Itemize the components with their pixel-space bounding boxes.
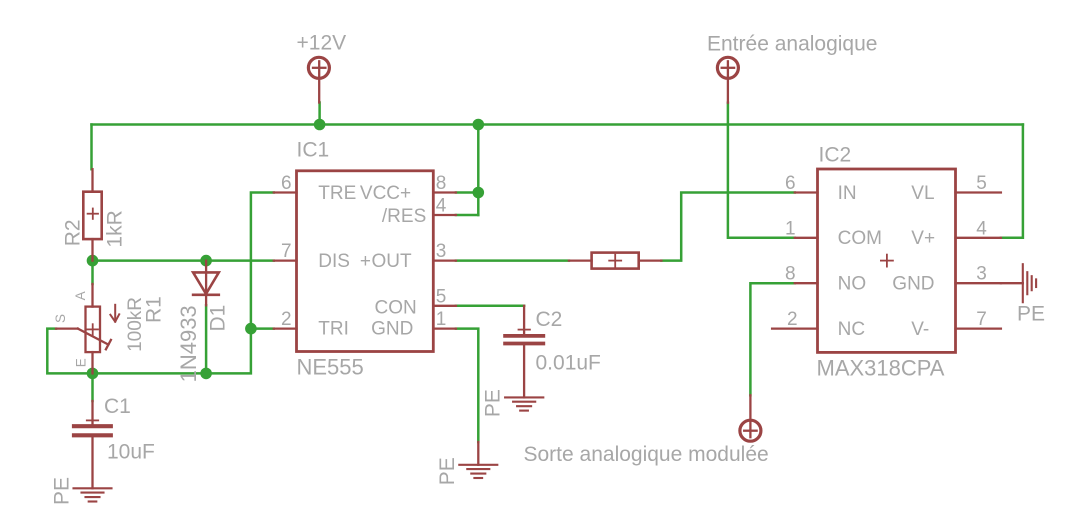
ground PE (IC1 pin1) [459,442,497,478]
node Entree analogique symbol [717,57,738,102]
svg-text:5: 5 [976,173,987,194]
svg-text:4: 4 [436,196,447,217]
diode D1 [193,261,219,306]
IC2 pin 8 stub [795,282,818,284]
IC2 MAX318CPA body [818,169,956,352]
svg-text:2: 2 [281,309,292,330]
svg-text:IC1: IC1 [297,139,330,162]
junction diode bottom [200,368,212,380]
wire pin2 link [251,327,274,330]
svg-text:3: 3 [436,241,447,262]
svg-text:CON: CON [375,298,417,319]
wire top rail right drop to IC2 pin4 [1001,125,1023,238]
wire +12V symbol drop [318,103,321,125]
supply +12V symbol [308,57,329,102]
IC2 pin 1 stub [795,237,818,239]
svg-text:1: 1 [785,218,796,239]
ground PE (C2) [505,397,543,410]
wire C1 tap from bottom rail [91,373,94,401]
svg-text:6: 6 [281,173,292,194]
IC1 pin 7 stub [274,259,297,261]
wire diode cathode to bottom rail [205,305,208,373]
svg-text:8: 8 [785,264,796,285]
wire pin1 to PE drop [456,329,478,442]
svg-text:TRE: TRE [318,183,356,204]
svg-text:OUT: OUT [372,251,413,272]
IC1 pin 4 stub [433,214,456,216]
svg-text:PE: PE [481,389,504,417]
IC1 pin 1 stub [433,327,456,329]
svg-text:TRI: TRI [318,319,349,340]
svg-text:+: + [360,251,371,272]
IC1 pin 6 stub [274,191,297,193]
svg-text:PE: PE [51,477,74,505]
svg-text:C1: C1 [104,395,131,418]
wire pin5 to C2 [456,305,524,308]
IC2 pin 3 stub [956,282,1001,284]
IC2 pin 2 stub [772,327,817,329]
svg-text:S: S [53,314,68,323]
polarity mark + (IC2 center) [881,255,893,267]
IC1 pin 3 stub [433,259,456,261]
svg-text:4: 4 [976,218,987,239]
svg-text:R1: R1 [142,296,165,323]
svg-text:C2: C2 [536,308,563,331]
svg-text:IC2: IC2 [819,144,852,167]
resistor R2 [83,169,101,260]
svg-text:PE: PE [436,457,459,485]
svg-text:NO: NO [838,274,867,295]
svg-text:IN: IN [838,183,857,204]
svg-text:+12V: +12V [297,32,347,55]
svg-text:GND: GND [892,274,934,295]
junction diode anode node [200,255,212,267]
svg-text:5: 5 [436,286,447,307]
wire rail drop at x478 to pins 8/4 [477,125,480,216]
wire pin7 net horizontal (R2 bottom to DIS) [93,259,274,262]
svg-text:E: E [74,358,89,367]
wire pin6 vertical down to pin2 row and bottom rail [47,193,273,374]
junction pin2/pin6 node [245,323,257,335]
wire IC2 pin8 to Sorte circle [750,283,794,395]
potentiometer R1 [56,284,111,373]
svg-text:7: 7 [976,309,987,330]
svg-text:1kR: 1kR [104,210,127,247]
ground PE (IC2 pin3, rotated) [1001,264,1036,302]
svg-text:1: 1 [436,309,447,330]
resistor (series, OUT to IN) [569,253,662,269]
wiper arrow R1 (adjust symbol) [110,305,119,322]
wire R2 to pot vertical [91,261,94,284]
svg-text:8: 8 [436,173,447,194]
ground PE (C1) [74,488,112,501]
node Sorte analogique modulee symbol [740,395,761,441]
wire resistor to IC2 pin6 [661,193,794,261]
svg-text:7: 7 [281,241,292,262]
svg-text:VL: VL [911,183,934,204]
junction pin8 x478 [473,187,485,199]
IC1 pin 5 stub [433,305,456,307]
wire Entree analogique to IC2 pin1 [728,103,795,238]
svg-text:DIS: DIS [318,251,350,272]
svg-text:Sorte analogique modulée: Sorte analogique modulée [524,443,769,466]
IC2 pin 4 stub [956,237,1001,239]
svg-text:GND: GND [371,319,413,340]
svg-text:D1: D1 [207,305,230,332]
wire left drop to R2 [90,125,93,170]
svg-text:1N4933: 1N4933 [176,305,201,382]
svg-text:10uF: 10uF [107,441,155,464]
svg-text:3: 3 [976,264,987,285]
svg-text:NC: NC [838,319,865,340]
svg-text:Entrée analogique: Entrée analogique [707,33,877,56]
svg-text:6: 6 [785,173,796,194]
wire pin3 to series resistor [456,259,569,262]
junction C1 tap [87,368,99,380]
junction +12V on top rail [314,119,326,131]
IC1 pin 8 stub [433,191,456,193]
svg-text:MAX318CPA: MAX318CPA [817,356,945,381]
svg-text:VCC+: VCC+ [360,183,411,204]
wire top +12V rail horizontal [92,123,1023,126]
svg-text:V-: V- [911,319,929,340]
wire pin8 link [456,191,478,194]
junction top rail x478 [473,119,485,131]
svg-text:2: 2 [787,309,798,330]
IC2 pin 5 stub [956,191,1001,193]
svg-text:NE555: NE555 [297,354,364,379]
wire pin4 link [456,214,478,217]
IC1 NE555 body [297,171,434,352]
svg-text:0.01uF: 0.01uF [536,352,601,375]
svg-text:R2: R2 [62,219,85,246]
svg-text:/RES: /RES [382,206,426,227]
junction R2 bottom node [87,255,99,267]
IC1 pin 2 stub [274,327,297,329]
svg-text:PE: PE [1017,303,1045,326]
svg-text:COM: COM [838,228,882,249]
capacitor C2 [505,306,543,398]
IC2 pin 7 stub [956,327,1001,329]
capacitor C1 [74,401,111,488]
IC2 pin 6 stub [795,191,818,193]
svg-text:V+: V+ [911,228,935,249]
svg-text:A: A [73,291,88,300]
